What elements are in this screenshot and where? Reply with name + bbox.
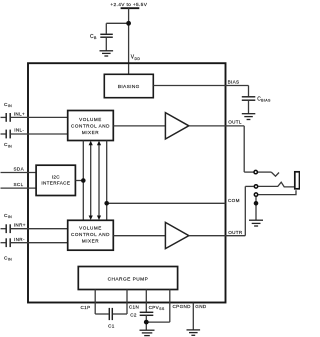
svg-text:VOLUME: VOLUME [79,226,102,231]
svg-text:OUTL: OUTL [228,120,242,125]
svg-text:INL-: INL- [14,128,24,133]
svg-text:C2: C2 [130,312,137,317]
svg-text:MIXER: MIXER [82,130,99,135]
svg-text:OUTR: OUTR [228,230,243,235]
svg-text:C1N: C1N [129,305,139,310]
svg-text:VOLUME: VOLUME [79,117,102,122]
svg-text:INR+: INR+ [14,222,26,227]
svg-text:C1P: C1P [81,305,91,310]
svg-text:MIXER: MIXER [82,239,99,244]
svg-text:INL+: INL+ [14,112,25,117]
svg-text:BIAS: BIAS [228,80,240,85]
svg-text:COM: COM [228,198,240,203]
svg-text:+2.4V to +5.5V: +2.4V to +5.5V [110,2,147,8]
svg-text:BIASING: BIASING [118,84,140,90]
svg-text:INR-: INR- [14,237,25,242]
svg-text:C1: C1 [108,323,115,328]
svg-text:SDA: SDA [14,166,25,171]
svg-text:INTERFACE: INTERFACE [41,180,70,185]
svg-text:CPGND: CPGND [173,304,192,309]
svg-text:SCL: SCL [14,182,24,187]
svg-text:I2C: I2C [52,174,61,179]
svg-text:CHARGE PUMP: CHARGE PUMP [108,276,149,282]
svg-text:CONTROL AND: CONTROL AND [71,124,110,129]
svg-text:CONTROL AND: CONTROL AND [71,232,110,237]
svg-text:GND: GND [195,304,207,309]
